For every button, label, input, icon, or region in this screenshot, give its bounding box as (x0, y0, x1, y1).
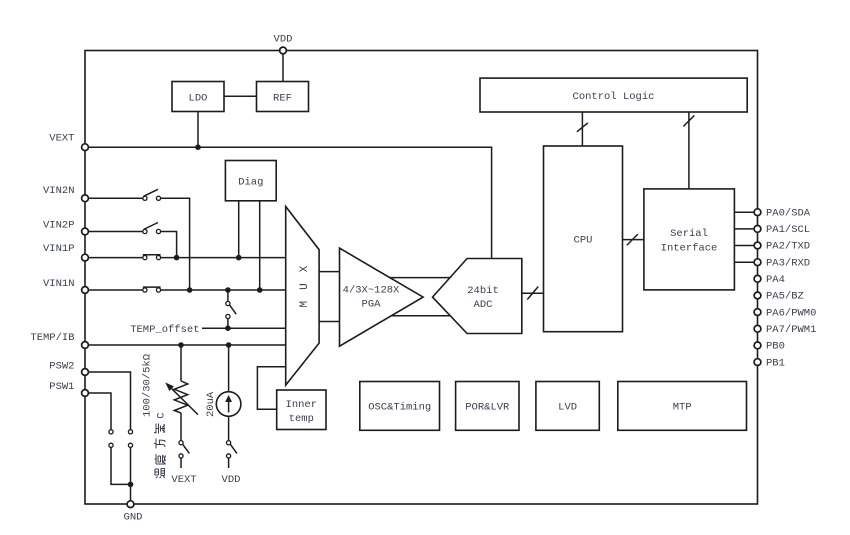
wire VIN2N to switch (88, 197, 142, 199)
svg-text:VIN2N: VIN2N (43, 185, 75, 197)
pin PA4 (754, 275, 761, 282)
pin PA6/PWM0 (754, 309, 761, 316)
pin PB1 (754, 359, 761, 366)
svg-text:Control Logic: Control Logic (573, 91, 655, 103)
pin PA7/PWM1 (754, 325, 761, 332)
block LVD (536, 382, 599, 431)
svg-text:LVD: LVD (558, 402, 577, 414)
svg-text:ADC: ADC (474, 299, 493, 311)
current source I1 20uA (216, 345, 241, 441)
wire Serial to PA0 (734, 211, 754, 213)
wire VIN2N switch to VIN1N rail (161, 198, 190, 290)
switch S1 (VIN2N, open) (143, 189, 161, 200)
resistor R1 100/30/5k variable (165, 345, 198, 441)
wire CPU to Serial (623, 239, 644, 241)
junction resistor branch (178, 342, 184, 348)
chip outer border (85, 51, 758, 505)
switch S4 (VIN1N, closed) (143, 287, 161, 292)
pin VIN1N (82, 287, 89, 294)
svg-text:VEXT: VEXT (49, 133, 74, 145)
wire VIN1N rail to MUX (161, 289, 286, 291)
switch S5 (TEMP_offset, open vertical) (226, 290, 236, 328)
svg-text:VIN1N: VIN1N (43, 278, 75, 290)
char 温 (155, 469, 165, 479)
amplifier PGA (340, 248, 424, 346)
wire LDO-REF (224, 95, 257, 97)
svg-text:PB0: PB0 (766, 341, 785, 353)
svg-text:GND: GND (124, 512, 143, 524)
svg-text:PA5/BZ: PA5/BZ (766, 291, 804, 303)
pin VEXT (82, 144, 89, 151)
svg-text:4/3X~128X: 4/3X~128X (343, 285, 400, 297)
svg-text:C: C (156, 412, 168, 418)
cpu U3 (544, 146, 623, 332)
wire Serial to PA2 (734, 245, 754, 247)
svg-text:PA0/SDA: PA0/SDA (766, 207, 811, 219)
sensor Inner temp (277, 390, 326, 430)
adc U2 24bit (433, 259, 522, 334)
svg-text:MTP: MTP (673, 402, 692, 414)
svg-text:PGA: PGA (362, 299, 382, 311)
svg-text:24bit: 24bit (467, 285, 499, 297)
pin VIN2P (82, 228, 89, 235)
block Control Logic (480, 78, 747, 112)
wire VDD to REF (282, 51, 284, 82)
wire Serial to PA3 (734, 261, 754, 263)
svg-text:VDD: VDD (222, 474, 241, 486)
wire TEMP_offset to MUX (202, 327, 286, 329)
svg-text:TEMP_offset: TEMP_offset (130, 324, 199, 336)
svg-text:PA2/TXD: PA2/TXD (766, 241, 810, 253)
pin VDD (280, 47, 287, 54)
svg-text:Serial: Serial (670, 228, 708, 240)
wire VIN1P rail to MUX (161, 257, 286, 259)
wire ControlLogic to CPU (581, 112, 583, 146)
junction TEMP_offset (225, 325, 231, 331)
pin PSW1 (82, 390, 89, 397)
wire PSW1 to junction (111, 447, 131, 484)
wire PSW1 down (88, 393, 111, 430)
switch S7 (current source to VDD) (227, 441, 237, 468)
reference REF (257, 82, 309, 112)
wire VIN2P to switch (88, 231, 142, 233)
svg-text:PA3/RXD: PA3/RXD (766, 257, 810, 269)
svg-text:Interface: Interface (661, 243, 718, 255)
wire VIN2P switch to VIN1P rail (161, 232, 177, 258)
wire Diag leg2 (259, 201, 261, 290)
bus slash CL-Serial (683, 115, 694, 126)
pin PA3/RXD (754, 259, 761, 266)
pin TEMP/IB (82, 342, 89, 349)
pin VIN2N (82, 195, 89, 202)
svg-text:VEXT: VEXT (171, 474, 196, 486)
wire TEMP/IB rail to MUX (88, 344, 285, 346)
svg-text:OSC&Timing: OSC&Timing (368, 402, 431, 414)
wire PSW2 to GND (130, 447, 132, 503)
junction current-source branch (226, 342, 232, 348)
block POR&LVR (456, 382, 519, 431)
wire LDO to VEXT rail (197, 112, 199, 148)
wire PGA-ADC bottom (391, 315, 450, 317)
wire MUX out bottom (319, 321, 339, 323)
wire PSW2 down (88, 372, 130, 430)
wire MUX out top (319, 271, 339, 273)
svg-text:VIN2P: VIN2P (43, 220, 75, 232)
wire Inner temp to MUX (257, 367, 285, 410)
svg-text:M U X: M U X (299, 263, 311, 307)
wire VEXT rail (85, 147, 492, 258)
pin GND (127, 501, 134, 508)
mux U1 (286, 207, 319, 386)
svg-text:Diag: Diag (238, 177, 263, 189)
svg-text:temp: temp (289, 413, 314, 425)
svg-text:PSW2: PSW2 (49, 361, 74, 373)
block MTP (618, 382, 747, 431)
svg-text:REF: REF (273, 92, 292, 104)
pin PA5/BZ (754, 292, 761, 299)
regulator LDO (172, 82, 224, 112)
svg-text:PA4: PA4 (766, 274, 785, 286)
junction VIN2P/VIN1P (174, 255, 180, 261)
char 度 (155, 454, 166, 464)
svg-text:VDD: VDD (274, 34, 293, 46)
svg-text:PSW1: PSW1 (49, 381, 74, 393)
wire VIN1P to switch (88, 257, 142, 259)
bus slash CL-CPU (577, 123, 588, 132)
wire Diag leg1 (238, 201, 240, 258)
svg-text:100/30/5kΩ: 100/30/5kΩ (142, 354, 154, 417)
svg-text:VIN1P: VIN1P (43, 243, 75, 255)
bus slash ADC-CPU (527, 287, 538, 300)
pin PSW2 (82, 369, 89, 376)
svg-text:PA1/SCL: PA1/SCL (766, 224, 810, 236)
pin PB0 (754, 342, 761, 349)
svg-text:20uA: 20uA (205, 391, 217, 417)
wire ControlLogic to Serial (688, 112, 690, 189)
wire VIN1N to switch (88, 289, 142, 291)
block Serial Interface (644, 189, 735, 290)
svg-text:LDO: LDO (189, 92, 208, 104)
svg-text:CPU: CPU (574, 235, 593, 247)
diagnostics Diag (225, 161, 276, 201)
svg-text:TEMP/IB: TEMP/IB (30, 332, 74, 344)
svg-text:Inner: Inner (286, 399, 318, 411)
svg-text:PA6/PWM0: PA6/PWM0 (766, 307, 816, 319)
junction PSW (128, 482, 134, 488)
switch S8 (PSW2) (128, 430, 132, 448)
switch S6 (resistor to VEXT) (179, 441, 189, 468)
char 案 (154, 424, 165, 434)
label 温度方案 C (drawn glyphs) (154, 412, 168, 478)
pin PA0/SDA (754, 209, 761, 216)
junction TEMPoffset-switch/VIN1N (225, 287, 231, 293)
switch S3 (VIN1P, closed) (143, 255, 161, 260)
svg-text:PA7/PWM1: PA7/PWM1 (766, 324, 816, 336)
svg-text:POR&LVR: POR&LVR (465, 402, 510, 414)
wire PGA-ADC top (389, 277, 450, 279)
block OSC&Timing (360, 382, 440, 431)
junction VIN2N/VIN1N (187, 287, 193, 293)
junction LDO/VEXT (195, 144, 201, 150)
wire Serial to PA1 (734, 228, 754, 230)
pin VIN1P (82, 254, 89, 261)
pin PA1/SCL (754, 226, 761, 233)
junction Diag/VIN1P (236, 255, 242, 261)
svg-text:PB1: PB1 (766, 357, 785, 369)
switch S9 (PSW1) (109, 430, 113, 448)
wire ADC to CPU (522, 292, 544, 294)
junction Diag/VIN1N (257, 287, 263, 293)
pin PA2/TXD (754, 242, 761, 249)
switch S2 (VIN2P, open) (143, 223, 161, 234)
char 方 (154, 439, 165, 449)
bus slash CPU-Serial (627, 234, 638, 245)
